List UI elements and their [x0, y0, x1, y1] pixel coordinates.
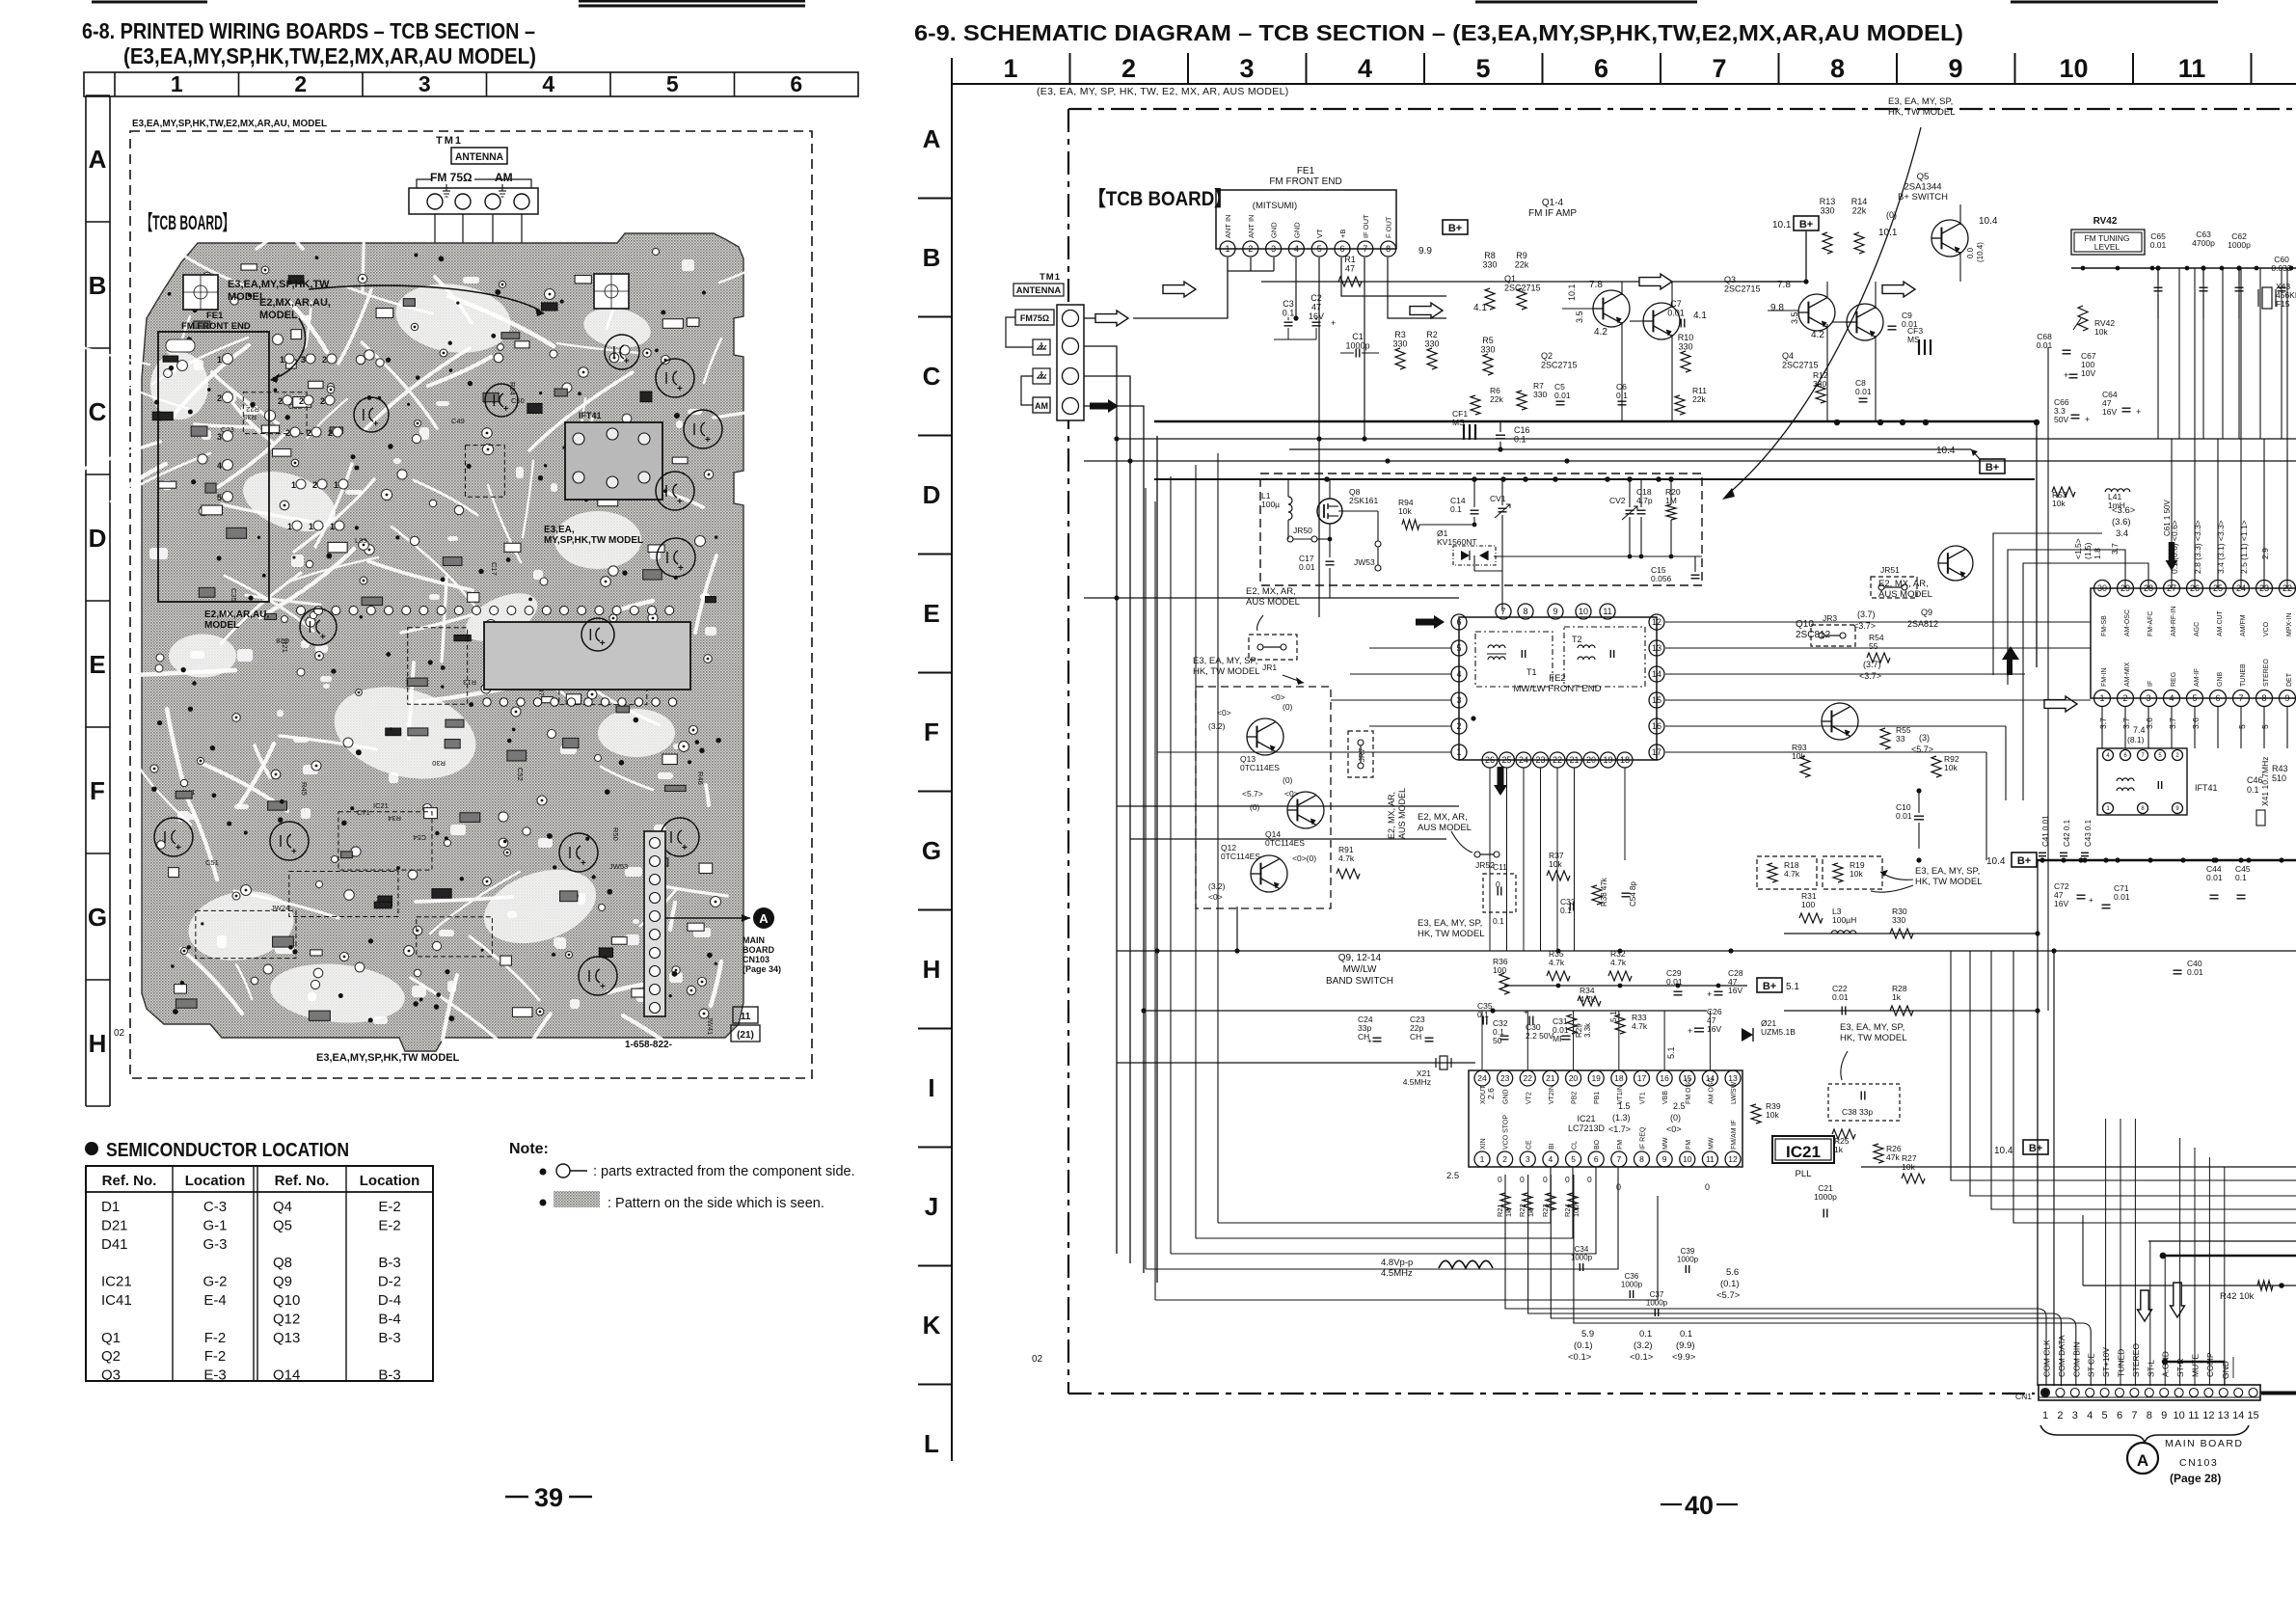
FE2 bottom pin drops: [1490, 768, 1625, 951]
svg-text:E2,MX,AR,AU,: E2,MX,AR,AU,: [259, 297, 331, 309]
board revision marks 11 21: [731, 1007, 760, 1042]
T2 transformer: [1564, 627, 1645, 687]
C21 1000p: [1814, 1183, 1837, 1218]
svg-text:C1: C1: [1352, 332, 1364, 341]
svg-text:C71: C71: [357, 808, 370, 817]
svg-text:13: 13: [1652, 643, 1661, 653]
page number 39: [505, 1483, 592, 1512]
svg-text:D-4: D-4: [378, 1292, 401, 1309]
C63 cap: [2192, 230, 2215, 318]
R8 330: [1482, 251, 1497, 310]
svg-text:FM/AM IF: FM/AM IF: [1731, 1120, 1738, 1150]
dashed outline of PWB figure: [130, 131, 812, 1078]
white arrow near Q4: [1882, 282, 1915, 297]
svg-text:1: 1: [1480, 1154, 1485, 1164]
svg-text:MW/LW: MW/LW: [1343, 964, 1377, 975]
svg-text:(0): (0): [1283, 702, 1293, 712]
IC21 boxed designator: [1772, 1136, 1834, 1179]
JR50 jumper: [1287, 526, 1332, 542]
FM75 ohm input box: [1015, 310, 1054, 325]
IC21 top pin risers: [1482, 1011, 1710, 1070]
svg-text:3.7: 3.7: [2121, 717, 2131, 729]
svg-text:<0>: <0>: [1217, 708, 1231, 717]
svg-text:FE1: FE1: [1297, 166, 1315, 176]
svg-text:(Page 34): (Page 34): [743, 964, 781, 974]
nested bus rectangles left of IC21: [1146, 453, 1658, 1300]
svg-text:R22: R22: [1518, 1204, 1526, 1217]
svg-text:R50: R50: [611, 827, 620, 841]
wire bus y497 through RF box: [1154, 476, 2035, 482]
R6 R7 C5 C6 R11 row: [1471, 381, 1707, 415]
svg-text:AUS MODEL: AUS MODEL: [1397, 788, 1407, 839]
model text E2 MX AR mid: [1418, 812, 1472, 853]
svg-text:AM OSC: AM OSC: [1708, 1077, 1715, 1104]
svg-text:1000p: 1000p: [2228, 240, 2251, 250]
svg-text:(Page 28): (Page 28): [2170, 1472, 2221, 1485]
L1 100u coil: [1261, 479, 1292, 539]
svg-text:2.5: 2.5: [1446, 1171, 1459, 1181]
svg-text:Q8: Q8: [273, 1255, 292, 1271]
svg-text:IFT41: IFT41: [579, 411, 602, 420]
svg-text:2: 2: [322, 355, 327, 365]
svg-text:330: 330: [1424, 339, 1439, 349]
svg-text:Q4: Q4: [273, 1199, 292, 1215]
svg-text:R38 47k: R38 47k: [1600, 877, 1608, 907]
model text E2 MX AR AUS left: [1246, 586, 1300, 631]
svg-text:3.5: 3.5: [1575, 311, 1584, 323]
svg-text:F15: F15: [2276, 299, 2290, 309]
svg-text:0.01: 0.01: [1832, 992, 1849, 1002]
black arrow below FE2: [1494, 767, 1507, 796]
svg-text:3.7: 3.7: [2168, 717, 2177, 729]
numbered pad clusters FE2 socket: [278, 354, 348, 531]
svg-text:6: 6: [2117, 1410, 2122, 1421]
antenna ground symbols: [443, 184, 506, 197]
svg-text:IC21: IC21: [1786, 1143, 1821, 1161]
svg-text:C61 1 50V: C61 1 50V: [2163, 500, 2172, 536]
svg-text:4: 4: [542, 71, 554, 96]
svg-text:4: 4: [217, 461, 222, 471]
C9 0.01: [1888, 311, 1918, 330]
svg-text:0.1: 0.1: [1639, 1329, 1652, 1340]
C35 0.1 cap: [1477, 1001, 1493, 1025]
svg-text:Q2: Q2: [1541, 351, 1553, 361]
svg-text:0: 0: [1587, 1175, 1592, 1184]
svg-text:<3.6>: <3.6>: [2112, 505, 2136, 516]
svg-text:R13: R13: [1820, 197, 1836, 206]
svg-text:5: 5: [1571, 1154, 1576, 1164]
svg-text:4.7k: 4.7k: [1549, 958, 1565, 967]
R31 100: [1799, 891, 1823, 923]
svg-text:Location: Location: [185, 1173, 246, 1189]
svg-text:2: 2: [2175, 753, 2179, 759]
svg-text:4.7p: 4.7p: [1636, 496, 1653, 505]
svg-text:9: 9: [2175, 806, 2179, 812]
svg-text:E2, MX, AR,: E2, MX, AR,: [1418, 812, 1468, 823]
svg-text:VT: VT: [1315, 229, 1324, 238]
R93 10k: [1792, 743, 1810, 777]
svg-text:330: 330: [1533, 390, 1547, 399]
svg-text:10.4: 10.4: [1994, 1146, 2013, 1156]
svg-text:1: 1: [2106, 806, 2110, 812]
svg-text:11: 11: [2188, 1410, 2199, 1421]
model text E3 above C38: [1840, 1022, 1907, 1080]
svg-text:A: A: [923, 124, 941, 153]
svg-text:E-3: E-3: [203, 1367, 226, 1384]
svg-text:9: 9: [1662, 1154, 1667, 1164]
svg-text:1: 1: [1225, 244, 1229, 254]
svg-text:JR51: JR51: [1880, 565, 1900, 575]
svg-text:L33: L33: [355, 536, 367, 545]
FM RF dashed enclosure: [1260, 474, 1702, 585]
svg-text:16: 16: [1652, 721, 1661, 731]
R10 330: [1678, 333, 1694, 372]
schematic dash-dot border: [1068, 109, 2296, 1394]
scan artifact marks top edge: [92, 1, 2218, 6]
svg-text:22k: 22k: [1852, 206, 1867, 216]
svg-text:18: 18: [1614, 1073, 1624, 1083]
svg-text:PB1: PB1: [1594, 1092, 1601, 1104]
mounting hole square top-right: [594, 274, 629, 309]
svg-text:RV42: RV42: [2093, 216, 2118, 227]
C28 47 16V: [1707, 968, 1743, 999]
right grid column ruler 1-11: [952, 53, 2296, 84]
svg-text:Q13: Q13: [273, 1330, 300, 1346]
svg-text:3.4: 3.4: [2116, 528, 2128, 539]
svg-text:5.1: 5.1: [1666, 1046, 1676, 1059]
svg-text:(21): (21): [737, 1030, 754, 1041]
svg-text:2SC2715: 2SC2715: [1541, 361, 1578, 370]
svg-text:5: 5: [2102, 1410, 2108, 1421]
svg-text:B+ SWITCH: B+ SWITCH: [1898, 192, 1948, 203]
left page title 6-8: [82, 18, 536, 68]
svg-text:TM1: TM1: [436, 135, 463, 147]
R53 10k and L41: [2052, 487, 2130, 510]
svg-text:15: 15: [2247, 1410, 2258, 1421]
svg-text:3.6: 3.6: [2191, 717, 2201, 729]
svg-text:ST CE: ST CE: [2087, 1353, 2096, 1377]
R36 100: [1493, 957, 1509, 994]
svg-text:4.5MHz: 4.5MHz: [1403, 1077, 1431, 1087]
model text E2 MX AR AUS vertical: [1387, 788, 1407, 839]
white arrow into IC41 pin1: [2044, 696, 2077, 712]
antenna TM1 labels right page: [1013, 272, 1064, 296]
black arrow into FE2 pin6: [1416, 615, 1445, 629]
svg-text:PLL: PLL: [1796, 1169, 1812, 1179]
svg-text:2SK161: 2SK161: [1349, 496, 1379, 505]
svg-text:2.5: 2.5: [1673, 1101, 1686, 1111]
svg-text:2: 2: [294, 71, 307, 96]
svg-text:6: 6: [1594, 54, 1608, 83]
svg-text:5.9: 5.9: [1581, 1329, 1594, 1340]
T1 transformer: [1475, 632, 1553, 687]
svg-text:1: 1: [171, 71, 183, 96]
svg-text:H: H: [89, 1029, 107, 1058]
svg-text:MODEL: MODEL: [204, 620, 239, 631]
transistor Q4: [1782, 304, 1883, 370]
svg-text:Q3: Q3: [1724, 275, 1736, 284]
C15 0.056: [1651, 556, 1700, 583]
svg-text:IC21: IC21: [1577, 1114, 1595, 1123]
svg-text:3: 3: [1526, 1154, 1530, 1164]
svg-text:A: A: [2137, 1451, 2148, 1470]
svg-text:D1: D1: [101, 1199, 120, 1215]
svg-text:0.1: 0.1: [1477, 1010, 1489, 1019]
R42 10k line: [2083, 1215, 2296, 1302]
svg-text:10k: 10k: [2052, 499, 2066, 508]
svg-text:2.2 50V: 2.2 50V: [1526, 1031, 1554, 1041]
svg-text:16: 16: [1660, 1073, 1669, 1083]
svg-text:MAIN BOARD: MAIN BOARD: [2165, 1438, 2244, 1449]
svg-text:D: D: [89, 524, 107, 553]
svg-text:11: 11: [1603, 607, 1611, 616]
R94 10k: [1398, 498, 1476, 529]
svg-text:F: F: [90, 776, 105, 805]
svg-text:10: 10: [2173, 1410, 2184, 1421]
svg-text:22k: 22k: [1692, 394, 1706, 404]
pointer swooshes on board: [270, 285, 545, 383]
svg-text:3.3k: 3.3k: [1583, 1022, 1592, 1038]
svg-text:4700p: 4700p: [2192, 238, 2215, 248]
svg-text:5: 5: [666, 71, 679, 96]
svg-text:D: D: [923, 480, 941, 509]
X21 crystal: [1403, 1056, 1451, 1087]
svg-text:REG: REG: [2171, 672, 2177, 687]
L3 R30 line: [1784, 907, 2038, 938]
svg-text:FM: FM: [1617, 1140, 1624, 1150]
svg-text:4.2: 4.2: [1594, 327, 1607, 338]
svg-text:9: 9: [2161, 1410, 2167, 1421]
svg-text:C54 8p: C54 8p: [1629, 881, 1637, 907]
TM1 connector on schematic: [1057, 305, 1084, 420]
svg-text:330: 330: [1482, 260, 1497, 270]
svg-text:29: 29: [2120, 583, 2130, 593]
svg-text:FM-SB: FM-SB: [2101, 615, 2108, 636]
svg-text:TM1: TM1: [1040, 272, 1061, 283]
svg-text:R8: R8: [1484, 251, 1496, 260]
svg-text:E: E: [923, 599, 939, 628]
svg-text:5: 5: [217, 493, 222, 502]
svg-text:E3, EA, MY, SP,: E3, EA, MY, SP,: [1888, 96, 1953, 107]
semiconductor location heading: [85, 1140, 349, 1161]
svg-text:MODEL: MODEL: [259, 310, 298, 321]
svg-text:VT2IN: VT2IN: [1549, 1085, 1555, 1104]
svg-text:4: 4: [1294, 244, 1299, 254]
svg-text:0.0: 0.0: [1966, 247, 1975, 258]
svg-text:17: 17: [1652, 747, 1661, 757]
C65 cap: [2150, 231, 2167, 318]
svg-text:(0): (0): [1250, 802, 1260, 812]
svg-text:B+: B+: [1448, 223, 1462, 234]
svg-text:C17: C17: [490, 562, 499, 576]
C62 cap: [2228, 231, 2251, 318]
A circle main board CN103: [2127, 1438, 2244, 1485]
JR52 jumper: [1474, 852, 1499, 870]
svg-text:K: K: [923, 1311, 941, 1340]
transistor Q2: [1541, 303, 1680, 370]
svg-text:Q9: Q9: [273, 1274, 292, 1290]
svg-text:G-2: G-2: [203, 1274, 227, 1290]
svg-text:8: 8: [2147, 1410, 2152, 1421]
FE2 left pin wires: [1157, 648, 1451, 752]
R9 22k: [1515, 251, 1529, 310]
C24 C23 caps: [1358, 1015, 1434, 1045]
brace under CN1: [2040, 1425, 2249, 1443]
svg-text:1k: 1k: [1834, 1145, 1844, 1154]
top right rail: [2071, 266, 2296, 271]
svg-text:<0>: <0>: [1271, 692, 1285, 702]
svg-text:0TC114ES: 0TC114ES: [1240, 763, 1280, 772]
svg-text:0.01: 0.01: [1667, 309, 1685, 318]
svg-text:(MITSUMI): (MITSUMI): [1253, 201, 1297, 211]
svg-text:<5.7>: <5.7>: [1242, 789, 1263, 798]
svg-text:3: 3: [301, 355, 306, 365]
svg-text:(0): (0): [1283, 775, 1293, 785]
R39 10k right of IC21: [1751, 1101, 1781, 1123]
svg-text:B-4: B-4: [378, 1311, 400, 1327]
svg-text:(0.1): (0.1): [1574, 1340, 1593, 1351]
svg-text:G: G: [88, 903, 107, 932]
svg-text:Q9, 12-14: Q9, 12-14: [1338, 953, 1382, 963]
svg-text:Ref. No.: Ref. No.: [275, 1173, 330, 1189]
svg-text:0TC114ES: 0TC114ES: [1221, 852, 1260, 861]
FE1 pin drop wires: [1228, 257, 1446, 617]
svg-text:2: 2: [2122, 693, 2127, 703]
svg-text:1: 1: [217, 355, 222, 365]
CN1 signal labels: [2042, 1335, 2234, 1379]
svg-text:JW41: JW41: [706, 1016, 715, 1035]
transistor Q13: [1208, 692, 1293, 772]
C66 C64 caps: [2054, 390, 2141, 424]
transistor Q5 B+ switch: [1878, 172, 1998, 262]
svg-text:+: +: [2136, 407, 2141, 417]
JR3 jumper: [1811, 613, 1855, 646]
svg-text:1-658-822-: 1-658-822-: [625, 1040, 672, 1050]
svg-text:+: +: [682, 843, 688, 853]
svg-text:E3,EA,MY,SP,HK,TW,E2,MX,AR,AU,: E3,EA,MY,SP,HK,TW,E2,MX,AR,AU, MODEL: [132, 118, 328, 129]
JR7 jumper vertical: [1348, 731, 1373, 777]
wire TM1 gnd2 bus: [1084, 376, 1130, 1263]
svg-text:9.8: 9.8: [1770, 303, 1784, 313]
svg-text:10.4: 10.4: [1986, 856, 2006, 867]
svg-text:IF: IF: [2147, 681, 2154, 687]
svg-text:R30: R30: [432, 759, 446, 768]
svg-text:FM 75Ω: FM 75Ω: [430, 171, 473, 184]
svg-text:【TCB BOARD】: 【TCB BOARD】: [1088, 188, 1232, 210]
C68 C67 caps: [2037, 332, 2096, 380]
IC41 on board with pad rows: [297, 607, 691, 707]
svg-text:PB2: PB2: [1572, 1092, 1579, 1104]
voltage labels under IC21: [1568, 1267, 1741, 1363]
svg-text:330: 330: [1678, 342, 1692, 352]
svg-text:SEMICONDUCTOR LOCATION: SEMICONDUCTOR LOCATION: [106, 1140, 349, 1161]
transistor Q9: [1822, 608, 1938, 754]
svg-text:12: 12: [1728, 1154, 1738, 1164]
svg-text:10.4: 10.4: [1979, 216, 1998, 227]
svg-text:HK, TW MODEL: HK, TW MODEL: [1840, 1033, 1907, 1043]
svg-text:7: 7: [1712, 54, 1726, 83]
B plus 10.4 right: [1936, 446, 2005, 474]
svg-text:0.01: 0.01: [1299, 562, 1315, 572]
wire TM1 AM to band switch: [1084, 399, 1144, 1273]
svg-text:XIN: XIN: [1480, 1138, 1487, 1150]
svg-text:AUS MODEL: AUS MODEL: [1246, 597, 1300, 608]
svg-text:ANT IN: ANT IN: [1224, 215, 1232, 238]
svg-text:24: 24: [1519, 755, 1528, 765]
svg-text:1000p: 1000p: [1621, 1281, 1643, 1289]
electrolytic capacitors on board: [154, 335, 722, 995]
svg-text:(E3,EA,MY,SP,HK,TW,E2,MX,AR,AU: (E3,EA,MY,SP,HK,TW,E2,MX,AR,AU MODEL): [123, 43, 536, 68]
svg-text:7: 7: [2238, 693, 2243, 703]
svg-text:2SC2715: 2SC2715: [1724, 284, 1761, 294]
svg-text:IC21: IC21: [373, 801, 389, 810]
svg-text:6-8. PRINTED WIRING BOARDS – T: 6-8. PRINTED WIRING BOARDS – TCB SECTION…: [82, 18, 535, 43]
svg-text:5: 5: [1475, 54, 1490, 83]
R19 dashed: [1823, 856, 1882, 889]
R1 47: [1338, 255, 1362, 286]
svg-text:LEVEL: LEVEL: [2094, 242, 2120, 252]
svg-text:COM CLK: COM CLK: [2042, 1340, 2052, 1377]
svg-text:0: 0: [1543, 1175, 1548, 1184]
model text E3 EA MY SP left: [1193, 656, 1304, 685]
svg-text:4: 4: [2106, 753, 2110, 759]
JR51 jumper: [1871, 565, 1917, 598]
svg-text:47: 47: [1345, 264, 1355, 274]
svg-text:(3): (3): [1919, 733, 1930, 743]
bottom bundle from IC21 to CN1 pins 1-4: [1505, 1175, 2091, 1386]
svg-text:R42 10k: R42 10k: [2220, 1291, 2255, 1302]
R34 4.7k: [1578, 986, 1601, 1006]
svg-text:HK, TW MODEL: HK, TW MODEL: [1888, 107, 1956, 118]
svg-text:7: 7: [2131, 1410, 2137, 1421]
R5 330: [1480, 336, 1495, 375]
svg-text:X41 10.7MHz: X41 10.7MHz: [2260, 757, 2270, 807]
FE2 MW LW front end block: [1451, 604, 1664, 768]
ST-L wire to edge: [2148, 1240, 2296, 1242]
svg-text:UZM5.1B: UZM5.1B: [1761, 1027, 1796, 1037]
svg-text:2.6: 2.6: [1486, 1088, 1496, 1099]
svg-text:4.7k: 4.7k: [1784, 869, 1800, 879]
svg-text:AM.CUT: AM.CUT: [2217, 609, 2224, 636]
model text E3 top right: [1722, 96, 1956, 500]
svg-text:FE2: FE2: [1549, 673, 1565, 684]
svg-text:8: 8: [1386, 244, 1391, 254]
svg-text:R2: R2: [1426, 330, 1438, 339]
IC21 block: [1446, 1070, 1742, 1192]
svg-text:<0.1>: <0.1>: [1568, 1352, 1592, 1363]
svg-text:2: 2: [217, 393, 222, 403]
svg-text:(E3, EA, MY, SP, HK, TW, E2, M: (E3, EA, MY, SP, HK, TW, E2, MX, AR, AUS…: [1037, 86, 1289, 97]
C60 cap: [2271, 255, 2292, 291]
svg-text:10: 10: [2059, 54, 2088, 83]
svg-text:15: 15: [1652, 695, 1661, 705]
svg-text:C2: C2: [1310, 293, 1322, 303]
svg-text:MW: MW: [1708, 1137, 1715, 1150]
C18 4.7p: [1636, 479, 1653, 556]
svg-text:28: 28: [2144, 583, 2153, 593]
C14 0.1: [1450, 479, 1479, 525]
svg-text:7.8: 7.8: [1589, 280, 1603, 290]
wire TM1 gnd bus: [1084, 346, 1117, 1254]
svg-text:IFT41: IFT41: [2195, 783, 2218, 793]
svg-text:22: 22: [1524, 1073, 1533, 1083]
svg-text:E3, EA, MY, SP,: E3, EA, MY, SP,: [1418, 918, 1482, 929]
svg-text:R9: R9: [1516, 251, 1527, 260]
svg-text:F-2: F-2: [204, 1330, 227, 1346]
svg-text:B+: B+: [2029, 1143, 2042, 1154]
svg-text:E3,EA,MY,SP,HK,TW MODEL: E3,EA,MY,SP,HK,TW MODEL: [316, 1052, 460, 1064]
waveform 4.8Vpp: [1381, 1258, 1493, 1279]
